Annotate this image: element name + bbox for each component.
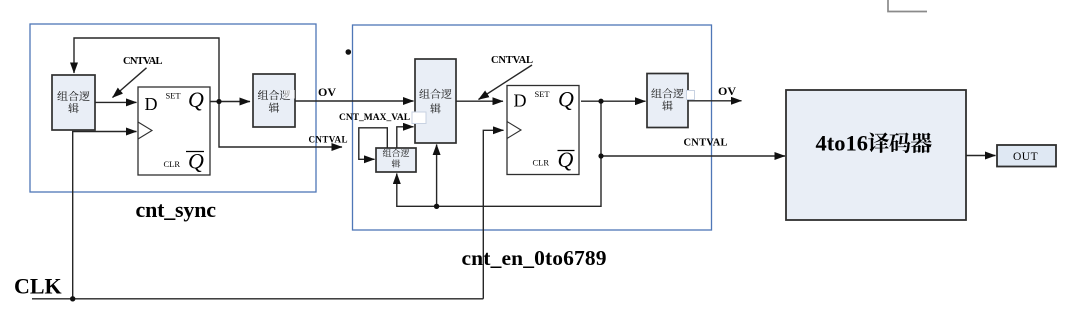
svg-text:CLK: CLK — [14, 274, 62, 299]
svg-text:cnt_sync: cnt_sync — [136, 197, 217, 222]
svg-text:Q: Q — [558, 86, 574, 111]
svg-text:CNTVAL: CNTVAL — [309, 135, 348, 145]
svg-text:Q: Q — [188, 149, 204, 174]
svg-text:CLR: CLR — [533, 158, 550, 168]
svg-text:OV: OV — [718, 84, 736, 98]
svg-text:CNTVAL: CNTVAL — [491, 55, 533, 66]
svg-text:OV: OV — [318, 85, 336, 99]
svg-text:SET: SET — [166, 91, 182, 101]
svg-text:CNT_MAX_VAL: CNT_MAX_VAL — [339, 113, 410, 123]
svg-text:cnt_en_0to6789: cnt_en_0to6789 — [462, 246, 607, 270]
svg-text:CNTVAL: CNTVAL — [684, 138, 728, 149]
svg-text:D: D — [145, 94, 158, 114]
svg-text:CNTVAL: CNTVAL — [123, 56, 163, 67]
svg-text:4to16: 4to16 — [816, 131, 869, 156]
svg-text:OUT: OUT — [1013, 151, 1038, 163]
svg-text:SET: SET — [535, 89, 551, 99]
svg-text:D: D — [514, 91, 527, 111]
svg-text:CLR: CLR — [164, 159, 181, 169]
svg-text:Q: Q — [188, 87, 204, 112]
